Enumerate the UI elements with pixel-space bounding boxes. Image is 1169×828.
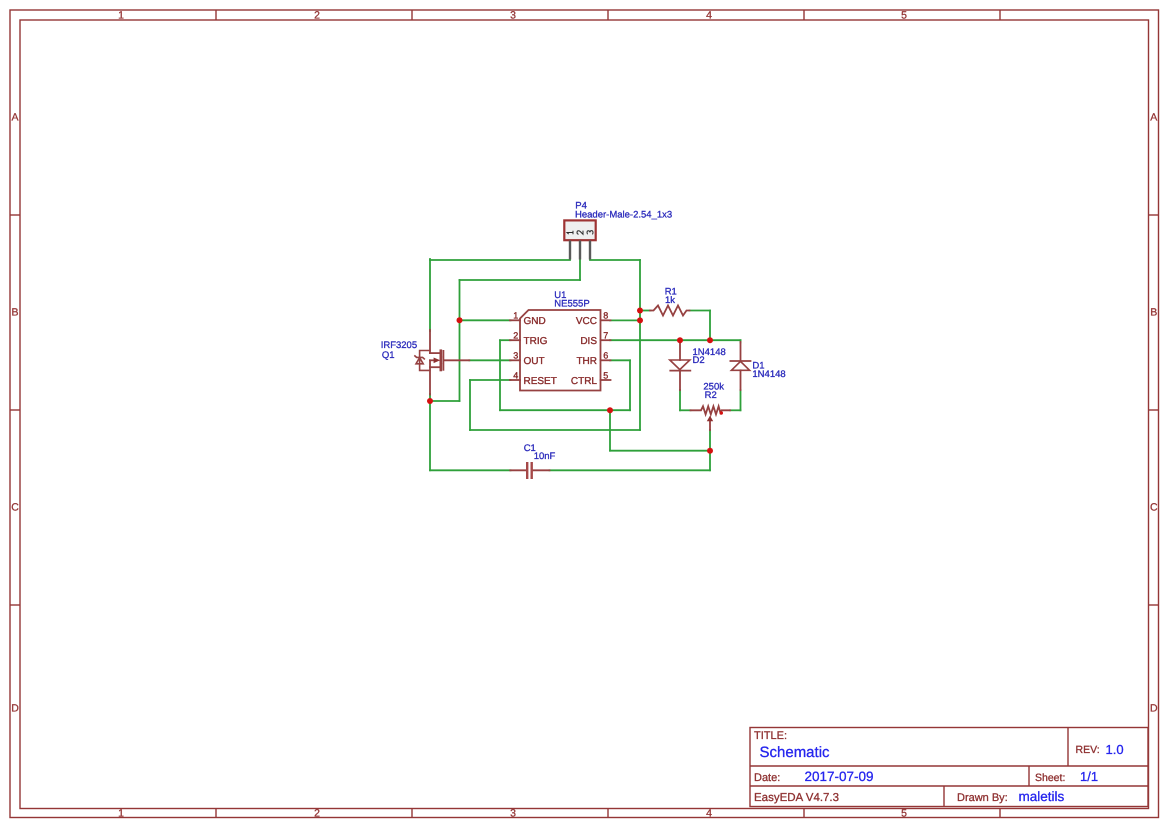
connector P4 body [564,220,595,240]
pin 4 stub [510,379,520,381]
resistor R2 wiper arrow head [707,416,713,422]
svg-text:CTRL: CTRL [571,376,598,387]
transistor Q1 channel segments [439,351,442,370]
svg-text:2: 2 [513,331,518,341]
svg-text:10nF: 10nF [534,451,556,462]
svg-text:GND: GND [524,316,546,327]
svg-text:4: 4 [513,370,518,380]
wire RESET [470,379,511,381]
wire D2 to R2 [680,409,691,411]
svg-text:7: 7 [603,331,608,341]
wire D1 top corner [740,340,742,342]
svg-text:EasyEDA V4.7.3: EasyEDA V4.7.3 [754,792,839,804]
svg-text:A: A [1150,112,1157,124]
svg-text:3: 3 [513,351,518,361]
wire bottom right [550,469,711,471]
diode D1 cathode lead [740,342,742,361]
wire THR [610,359,630,361]
diode D2 triangle [670,360,690,370]
connector P4 pin posts [570,241,590,260]
wire THR vertical [629,360,631,410]
svg-text:5: 5 [603,370,608,380]
svg-text:1: 1 [118,808,124,820]
pin 8 stub [601,319,611,321]
wire R1 left stub [640,310,651,312]
capacitor C1 right lead [533,469,550,471]
transistor Q1 gate bar [442,351,444,370]
pin 5 stub [601,379,611,381]
svg-text:1: 1 [513,311,518,321]
wire R1 right to drop [690,310,711,312]
transistor Q1 body diode bracket [415,351,430,371]
node R1 left [637,308,643,314]
svg-text:Schematic: Schematic [760,744,831,761]
svg-text:VCC: VCC [576,316,597,327]
node R1 right tee [707,337,713,343]
node GND tee [457,317,463,323]
svg-text:Q1: Q1 [382,350,395,361]
node D2 tee [677,337,683,343]
svg-text:REV:: REV: [1076,744,1100,756]
wire y450 horizontal [610,450,710,452]
resistor R2 wiper arrow tail [709,421,711,431]
node VCC tee [637,317,643,323]
wire OUT green [469,359,510,361]
svg-text:R2: R2 [705,390,717,401]
svg-text:4: 4 [706,808,712,820]
wire GND pin1 [460,319,511,321]
wire mid drop x610 [609,410,611,451]
wire R2 arrow drop [709,430,711,470]
node source junction [427,398,433,404]
diode D1 triangle [731,361,749,370]
svg-text:1k: 1k [665,295,675,306]
svg-text:1: 1 [118,10,124,22]
wire VCC pin8 [610,319,640,321]
svg-text:5: 5 [901,808,907,820]
wire D2 bottom green [679,390,681,410]
transistor Q1 body link [430,359,435,361]
svg-text:2: 2 [314,808,320,820]
wire header pin3 rail [639,260,641,430]
svg-text:A: A [11,112,18,124]
pin 2 stub [510,339,520,341]
wire rail2 vertical [459,280,461,401]
svg-text:B: B [1150,307,1157,319]
svg-text:Sheet:: Sheet: [1035,772,1065,784]
diode D1 cathode bar [730,360,750,362]
svg-text:4: 4 [706,10,712,22]
wire top rail to header pin1 [430,259,570,261]
diode D2 cathode bar [670,370,690,372]
capacitor C1 left lead [510,469,526,471]
svg-text:D2: D2 [693,355,705,366]
svg-text:Header-Male-2.54_1x3: Header-Male-2.54_1x3 [575,209,672,220]
svg-text:TRIG: TRIG [524,336,548,347]
transistor Q1 body diode triangle [416,358,423,364]
svg-text:OUT: OUT [524,356,545,367]
transistor Q1 drain channel link [430,352,440,354]
wire bottom left [430,469,511,471]
wire D1 bottom green [740,390,742,410]
wire RESET to header3 horizontal y430 [470,429,640,431]
resistor R1 zigzag [650,306,690,316]
svg-text:THR: THR [576,356,597,367]
svg-text:DIS: DIS [580,336,597,347]
svg-text:2017-07-09: 2017-07-09 [805,769,874,784]
transistor Q1 gate lead [443,359,469,361]
svg-text:1N4148: 1N4148 [752,369,785,380]
right ticks [1149,214,1159,216]
svg-text:3: 3 [510,808,516,820]
diode D2 anode lead [679,340,681,360]
svg-text:1/1: 1/1 [1080,769,1098,784]
pin 6 stub [601,359,611,361]
connector P4 pin digits [567,231,593,235]
wire TRIG short [500,339,511,341]
svg-text:RESET: RESET [524,376,557,387]
wire left rail lower [429,394,431,470]
svg-text:5: 5 [901,10,907,22]
pin 7 stub [601,339,611,341]
left ticks [10,214,20,216]
diode D1 anode lead [740,370,742,390]
transistor Q1 body arrow head [434,358,441,364]
capacitor C1 plates [527,462,532,479]
wire header pin3 top [590,259,640,261]
pin 1 stub [510,319,520,321]
node mid tee [607,407,613,413]
svg-text:C: C [11,502,19,514]
wire mid horizontal y410 [500,409,630,411]
diode D2 cathode lead [679,371,681,390]
resistor R2 zigzag [691,406,731,414]
op-amp U1 chip body NE555P [520,310,601,391]
svg-text:B: B [11,307,18,319]
wire R1 drop vertical [709,311,711,341]
svg-text:Drawn By:: Drawn By: [957,792,1008,804]
svg-text:maletils: maletils [1019,789,1065,804]
svg-text:6: 6 [603,351,608,361]
node R2 wiper dot [720,411,723,414]
transistor Q1 source channel link [430,366,440,368]
transistor Q1 source lead [429,360,431,394]
transistor Q1 drain lead [429,330,431,353]
svg-text:3: 3 [510,10,516,22]
bottom ticks [215,809,217,818]
wire R2 right green [730,409,741,411]
top ticks [215,10,217,20]
svg-text:NE555P: NE555P [554,299,589,310]
pin 3 stub [510,359,520,361]
wire rail2 to header pin2 [460,279,581,281]
svg-text:D: D [1150,703,1158,715]
transistor Q1 body zener bar [415,356,424,359]
wire RESET vertical [469,380,471,430]
svg-text:2: 2 [314,10,320,22]
wire DIS long [610,339,741,341]
svg-text:D: D [11,703,19,715]
svg-text:1.0: 1.0 [1106,742,1124,757]
wire source junction to rail2 [430,400,460,402]
svg-text:C: C [1150,502,1158,514]
node y450 tee [707,448,713,454]
wire left rail upper [429,259,431,331]
svg-text:8: 8 [603,311,608,321]
wire header pin2 drop [579,260,581,281]
svg-text:Date:: Date: [754,772,780,784]
svg-text:TITLE:: TITLE: [754,730,787,742]
wire TRIG vertical [499,340,501,410]
TITLE BLOCK [750,728,1148,807]
